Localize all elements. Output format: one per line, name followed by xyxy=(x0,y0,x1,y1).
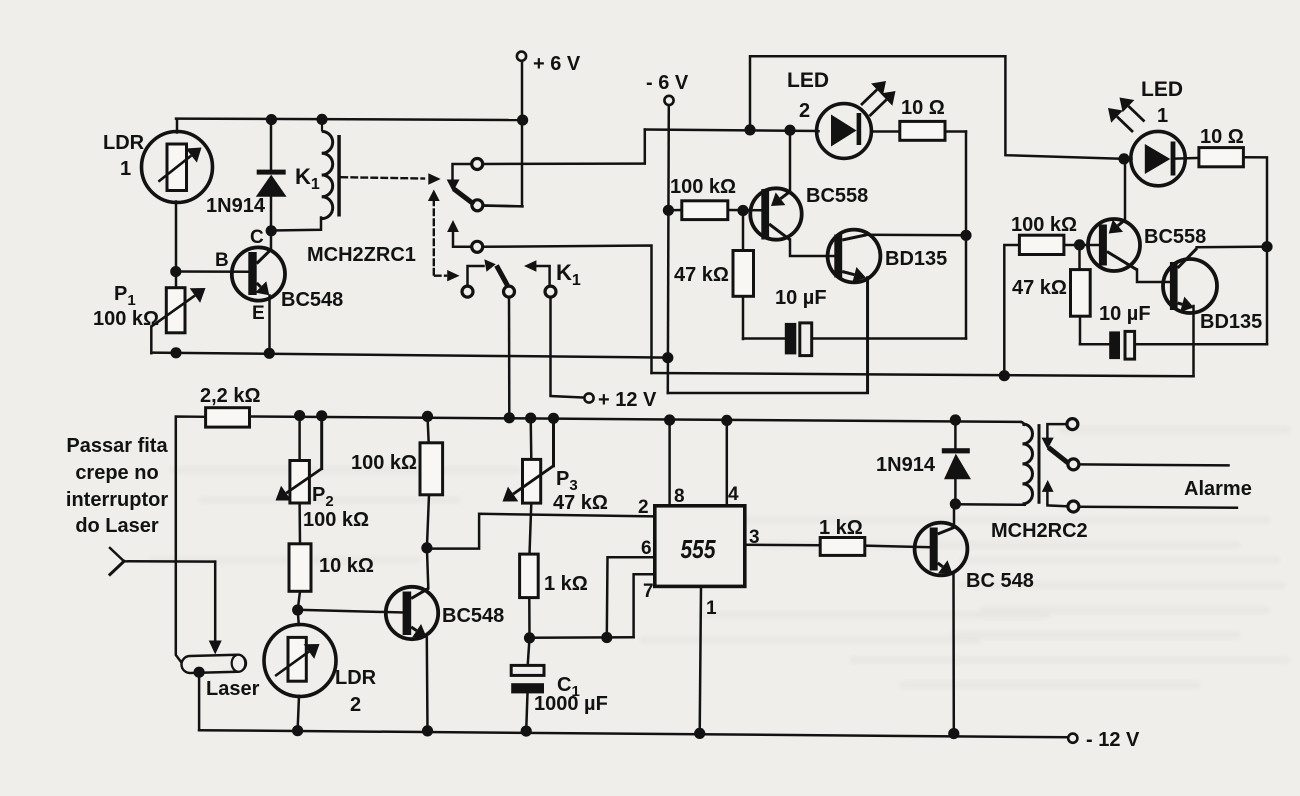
relay contact1 top circle xyxy=(472,159,483,170)
svg-text:do Laser: do Laser xyxy=(75,515,159,537)
wire line A to LED1 stage xyxy=(652,373,1194,376)
wire Q6 emitter drop xyxy=(426,638,429,731)
LED1 emission arrows xyxy=(1117,117,1133,132)
relay contact2 arrow arm xyxy=(447,220,459,232)
wire 10uF left leads xyxy=(743,337,785,340)
wire contact1 NC lead xyxy=(483,204,523,207)
junction dot Q6 emitter ground xyxy=(422,725,433,736)
dashed arrow up xyxy=(428,190,440,202)
wire P2 wiper tie xyxy=(320,416,323,469)
wire Q3 collector output xyxy=(866,234,966,237)
junction dot line A 100k right xyxy=(999,370,1010,381)
wire loop from LED2 rail over to LED1 anode xyxy=(750,56,1124,159)
resistor 10k xyxy=(289,544,311,592)
wire contact2 pivot lead xyxy=(453,233,472,247)
wire Q1 emitter drop xyxy=(268,296,271,354)
wire 100k right to base node xyxy=(1064,244,1100,247)
wire alarme lower xyxy=(1079,507,1237,508)
potentiometer P1 xyxy=(166,288,185,333)
svg-text:1: 1 xyxy=(120,158,131,180)
wire bottom ground rail xyxy=(199,730,1068,737)
svg-text:1000 µF: 1000 µF xyxy=(534,693,608,715)
wire 2.2k left lead down to laser xyxy=(176,417,206,664)
wire 10uF right leads xyxy=(1080,343,1109,346)
wire Q4 emitter riser xyxy=(1124,159,1127,220)
svg-text:BD135: BD135 xyxy=(1200,311,1262,333)
junction dot P1 top on bottom rail xyxy=(170,347,181,358)
relay contact3 right circle xyxy=(545,286,556,297)
svg-text:10 kΩ: 10 kΩ xyxy=(319,555,374,577)
wire P2 top lead xyxy=(298,416,301,461)
svg-text:LDR: LDR xyxy=(335,667,377,689)
svg-text:1: 1 xyxy=(1157,105,1168,127)
relay contact1 bottom circle xyxy=(472,200,483,211)
svg-text:47 kΩ: 47 kΩ xyxy=(1012,277,1067,299)
junction dot pin1 on ground rail xyxy=(694,728,705,739)
junction dot pin6 node xyxy=(601,632,612,643)
wire pin8 supply xyxy=(668,420,671,506)
wire C1 top lead xyxy=(528,638,530,665)
svg-text:Passar fita: Passar fita xyxy=(66,435,168,457)
resistor 47k left xyxy=(733,251,754,297)
svg-text:BC 548: BC 548 xyxy=(966,570,1034,592)
wire 100k bottom leads xyxy=(428,416,429,443)
resistor 2.2k xyxy=(206,408,250,427)
resistor 100k right xyxy=(1019,235,1064,254)
junction dot Q2 base node xyxy=(737,205,748,216)
wire laser to ground rail xyxy=(198,672,201,730)
LED2 emission arrows xyxy=(861,90,877,105)
wire pin3 output xyxy=(745,544,821,547)
svg-text:MCH2ZRC1: MCH2ZRC1 xyxy=(307,244,416,266)
svg-text:100 kΩ: 100 kΩ xyxy=(303,509,369,531)
wire -6V vertical feed xyxy=(668,105,669,393)
junction dot LED1 anode xyxy=(1118,153,1129,164)
wire D2 bottom lead xyxy=(954,479,957,504)
wire K1 coil bottom return xyxy=(272,218,321,231)
junction dot LED2 rail loop xyxy=(744,124,755,135)
relay2 arm with arrow xyxy=(1042,438,1054,450)
terminal -12V xyxy=(1068,734,1077,743)
svg-text:- 12 V: - 12 V xyxy=(1086,729,1140,751)
svg-text:2: 2 xyxy=(799,100,810,122)
junction dot 100k bottom trigger node xyxy=(421,542,432,553)
wire Q6 base xyxy=(298,610,403,613)
wire contact3 common drop to bottom rail xyxy=(508,297,511,418)
wire Q2 emitter riser xyxy=(789,130,792,192)
junction dot -6V bottom-rail node xyxy=(662,352,673,363)
dashed link corner to contact3 xyxy=(433,269,435,276)
transistor Q6 BC548 xyxy=(386,587,438,639)
junction dot Q1 emitter on bottom rail xyxy=(264,348,275,359)
relay contact3 arm with arrow xyxy=(484,259,496,272)
terminal -6V xyxy=(664,96,673,105)
wire LDR2 top lead xyxy=(298,610,299,625)
wire pin1 ground xyxy=(700,586,701,733)
relay2 bottom contact circle xyxy=(1068,501,1079,512)
svg-text:Laser: Laser xyxy=(206,678,260,700)
wire Q7 emitter drop xyxy=(952,574,955,734)
resistor 10ohm right xyxy=(1199,148,1244,167)
svg-text:crepe no: crepe no xyxy=(75,462,158,484)
junction dot laser terminal xyxy=(194,667,205,678)
wire P3 wiper tie xyxy=(552,418,555,466)
wire P1 wiper drop xyxy=(150,327,153,354)
svg-text:+ 6 V: + 6 V xyxy=(533,53,581,75)
svg-text:4: 4 xyxy=(728,484,739,505)
wire laser tape chevron feed xyxy=(110,548,215,562)
transistor Q5 BD135 xyxy=(1163,259,1217,313)
junction dot 100k top xyxy=(422,411,433,422)
diode D1 1N914 xyxy=(257,170,286,175)
LED LED2 xyxy=(817,104,872,159)
svg-text:LED: LED xyxy=(787,69,829,92)
wire P3 to 1k xyxy=(530,503,532,554)
junction dot pin4 on mid rail xyxy=(721,415,732,426)
wire Q1 collector riser xyxy=(270,231,273,249)
wire Q5 emitter drop xyxy=(1192,306,1195,376)
wire LED2 leads xyxy=(818,130,819,133)
wire D2 node to relay coil bottom xyxy=(955,503,1024,506)
svg-text:10 Ω: 10 Ω xyxy=(901,97,945,119)
svg-text:7: 7 xyxy=(643,581,654,602)
laser cylinder xyxy=(181,655,246,674)
wire pin7 link xyxy=(634,574,655,637)
junction dot Q7 emitter ground xyxy=(948,728,959,739)
junction dot right bus collector node xyxy=(1261,241,1272,252)
resistor 100k left xyxy=(682,201,728,220)
wire +6V feed down to contact arm xyxy=(483,61,522,207)
wire contact2 to line-A riser xyxy=(482,246,651,374)
wire 1k right lead to Q7 base xyxy=(865,546,930,548)
wire P2 to 10k xyxy=(298,503,301,544)
junction dot LDR2 ground xyxy=(292,725,303,736)
resistor 100k bottom xyxy=(420,443,443,495)
resistor 1k bottom xyxy=(520,554,539,598)
junction dot Q6 base node xyxy=(292,604,303,615)
capacitor 10uF left xyxy=(785,323,797,355)
svg-text:555: 555 xyxy=(681,534,716,564)
potentiometer P3 xyxy=(523,459,541,503)
svg-text:47 kΩ: 47 kΩ xyxy=(674,264,729,286)
svg-text:47 kΩ: 47 kΩ xyxy=(553,492,608,514)
svg-text:10 Ω: 10 Ω xyxy=(1200,126,1244,148)
svg-text:C: C xyxy=(250,227,264,248)
svg-text:3: 3 xyxy=(749,527,760,548)
svg-text:Alarme: Alarme xyxy=(1184,478,1252,500)
wire arrow drop to laser xyxy=(214,562,217,641)
svg-text:BD135: BD135 xyxy=(885,248,947,270)
wire line B to BD135 left emitter xyxy=(668,278,868,394)
wire Q6 collector riser xyxy=(427,548,428,589)
wire LED2 supply rail xyxy=(645,130,818,132)
wire Q4 collector to Q5 base xyxy=(1137,270,1170,283)
junction dot contact3 common on mid rail xyxy=(504,412,515,423)
diode D2 1N914 xyxy=(942,448,970,453)
svg-text:8: 8 xyxy=(674,486,685,507)
wire trigger zigzag to pin2 xyxy=(427,514,655,549)
svg-text:10 µF: 10 µF xyxy=(775,287,827,309)
wire D2 top lead xyxy=(954,420,957,449)
wire Q7 collector riser xyxy=(953,504,956,527)
svg-text:LDR: LDR xyxy=(103,132,145,154)
svg-text:BC558: BC558 xyxy=(806,185,868,207)
relay2 lower throw arrow xyxy=(1042,480,1054,492)
svg-text:1 kΩ: 1 kΩ xyxy=(819,517,863,539)
resistor 10ohm left xyxy=(900,121,945,140)
IC U1 555 xyxy=(655,506,745,587)
svg-text:B: B xyxy=(215,250,229,271)
svg-text:100 kΩ: 100 kΩ xyxy=(93,308,159,330)
relay contact2 circle xyxy=(472,241,483,252)
svg-text:2: 2 xyxy=(638,497,649,518)
junction dot D2 collector node xyxy=(950,498,961,509)
wire 47k left leads xyxy=(742,210,745,250)
svg-text:6: 6 xyxy=(641,538,652,559)
wire 1k bottom lead xyxy=(528,598,531,638)
dashed link vertical xyxy=(433,200,435,270)
svg-text:100 kΩ: 100 kΩ xyxy=(670,176,736,198)
relay MCH2RC2 core bar xyxy=(1038,424,1041,504)
wire LDR1 bottom lead xyxy=(175,202,178,289)
transistor Q7 BC548 xyxy=(915,523,968,576)
relay contact3 right throw arrow xyxy=(524,260,536,271)
junction dot LDR1-P1-base node xyxy=(170,266,181,277)
relay coil K1 xyxy=(322,131,333,153)
svg-text:+ 12 V: + 12 V xyxy=(598,389,657,411)
relay contact3 middle circle xyxy=(504,286,515,297)
terminal +6V xyxy=(517,52,526,61)
junction dot P2 top xyxy=(294,410,305,421)
wire contact3 to +12V terminal xyxy=(551,297,585,398)
LED LED1 xyxy=(1131,131,1185,185)
resistor 47k right xyxy=(1071,270,1091,317)
wire pin4 supply xyxy=(726,420,729,506)
resistor 1k right xyxy=(820,538,865,556)
svg-text:MCH2RC2: MCH2RC2 xyxy=(991,520,1088,542)
wire Q3 emitter drop xyxy=(866,278,869,393)
wire relay2 bottom throw lead xyxy=(1047,492,1068,506)
wire 47k right leads xyxy=(1078,245,1081,270)
capacitor C1 1000uF xyxy=(511,665,544,675)
relay contact1 arm xyxy=(447,180,460,192)
junction dot cap bus xyxy=(960,230,971,241)
svg-text:E: E xyxy=(252,303,265,324)
svg-text:BC548: BC548 xyxy=(281,289,343,311)
junction dot Q4 base node xyxy=(1074,239,1085,250)
transistor Q2 BC558 xyxy=(750,188,801,239)
junction dot P3 top xyxy=(525,413,536,424)
wire 10k bottom lead xyxy=(298,591,300,610)
svg-text:BC548: BC548 xyxy=(442,605,504,627)
wire D1 top lead xyxy=(270,119,273,170)
svg-text:interruptor: interruptor xyxy=(66,489,168,511)
relay2 top contact circle xyxy=(1067,419,1078,430)
wire main mid rail xyxy=(250,417,1021,422)
relay2 middle contact circle xyxy=(1068,459,1079,470)
junction dot LED2 rail Q2 emitter xyxy=(784,125,795,136)
svg-text:BC558: BC558 xyxy=(1144,226,1206,248)
wire D1 bottom lead xyxy=(270,197,273,232)
wire 10ohm right to right bus xyxy=(1243,157,1267,344)
wire 100k left resistor leads xyxy=(668,209,682,212)
wire contact3 right throw lead xyxy=(536,266,550,287)
dashed arrow into contact1 xyxy=(428,173,440,184)
svg-text:100 kΩ: 100 kΩ xyxy=(351,452,417,474)
capacitor 10uF right xyxy=(1109,331,1120,359)
junction dot 1k-C1 node xyxy=(524,632,535,643)
svg-text:LED: LED xyxy=(1141,78,1183,101)
junction dot P2 wiper xyxy=(316,410,327,421)
wire P3 top lead xyxy=(529,418,532,459)
transistor Q3 BD135 xyxy=(828,230,881,283)
relay contact3 left circle xyxy=(462,286,473,297)
wire alarme upper xyxy=(1079,464,1229,465)
wire 100k right left lead and drop to line A xyxy=(1004,245,1019,376)
junction dot +6V rail xyxy=(517,115,528,126)
wire top-left supply rail xyxy=(176,119,523,120)
wire LDR1 top lead xyxy=(176,119,179,133)
wire Q2 collector to Q3 base xyxy=(790,240,835,257)
junction dot D2 top on mid rail xyxy=(950,414,961,425)
wire LED1 leads xyxy=(1124,157,1132,160)
wire Q5 collector output xyxy=(1197,245,1267,248)
relay K1 core bar xyxy=(337,135,341,217)
junction dot P3 wiper xyxy=(548,413,559,424)
svg-text:1N914: 1N914 xyxy=(876,454,936,476)
junction dot above D1 xyxy=(266,114,277,125)
wire pin6 link xyxy=(607,557,655,637)
wire relay2 top contact lead xyxy=(1047,424,1067,438)
svg-text:- 6 V: - 6 V xyxy=(646,72,689,94)
wire 10ohm left to cap bus vertical xyxy=(965,132,968,339)
transistor Q4 BC558 xyxy=(1088,219,1140,271)
laser aiming arrow head xyxy=(209,641,222,655)
terminal +12V xyxy=(584,393,593,402)
wire contact1 NO to LED2 rail riser xyxy=(482,130,645,165)
relay coil MCH2RC2 xyxy=(1021,422,1024,426)
svg-text:2: 2 xyxy=(350,694,361,716)
dashed link K1 coil to contact1 xyxy=(342,177,425,178)
potentiometer P2 xyxy=(290,461,310,504)
dashed arrow into contact3 xyxy=(447,270,459,281)
svg-text:10 µF: 10 µF xyxy=(1099,303,1151,325)
wire contact3 left pivot lead xyxy=(468,266,484,287)
junction dot C1 on ground rail xyxy=(521,726,532,737)
wire LDR2 bottom lead xyxy=(298,696,299,731)
wire Q1 base xyxy=(176,270,249,273)
wire C1 bottom lead xyxy=(526,693,527,731)
LDR LDR2 xyxy=(264,625,336,697)
svg-text:1: 1 xyxy=(706,598,717,619)
svg-text:1 kΩ: 1 kΩ xyxy=(544,573,588,595)
wire bottom rail of LDR1 stage xyxy=(151,353,668,358)
junction dot pin8 on mid rail xyxy=(664,414,675,425)
junction dot above K1 coil xyxy=(316,114,327,125)
wire chevron lower arm xyxy=(110,561,124,574)
wire contact1 pivot lead xyxy=(453,164,473,181)
LDR LDR1 xyxy=(142,132,213,203)
svg-text:100 kΩ: 100 kΩ xyxy=(1011,214,1077,236)
wire pins6-7 bus xyxy=(530,636,634,639)
transistor Q1 BC548 xyxy=(232,247,285,300)
junction dot -6V 100k node xyxy=(663,205,674,216)
svg-text:2,2 kΩ: 2,2 kΩ xyxy=(200,385,261,407)
junction dot D1 cathode node C xyxy=(266,225,277,236)
svg-text:1N914: 1N914 xyxy=(206,195,266,217)
